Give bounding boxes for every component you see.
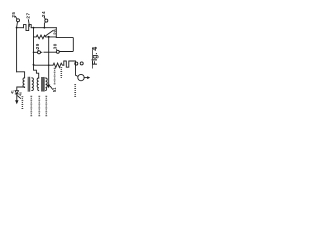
wire: T1 primary bottom to rectifier [17, 87, 25, 91]
node: junction terminal 24 / top rail [44, 27, 46, 29]
wire: rail to resistor row [33, 28, 35, 65]
svg-text:4x: 4x [18, 92, 22, 96]
load box (rectangle, open bottom-left at terminal 30) [56, 37, 73, 51]
wire: left rail corner to transformer primary [17, 72, 25, 78]
connector circle (right half, floating) [80, 62, 83, 65]
node: junction of terminal 25 and top rail [16, 27, 18, 29]
label column: lamp (tiny rotated text as dash stack) [74, 84, 76, 97]
svg-text:30: 30 [53, 43, 58, 49]
T2 core (dense) [41, 77, 43, 91]
winding label: SECONDARY (T1 right) (tiny rotated text as dash stack) [30, 96, 32, 116]
terminal 25 (top-left input) [15, 16, 19, 27]
node: dropper / mid wire junction [48, 64, 50, 66]
winding label: T2 secondary (tiny rotated text as dash stack) [45, 96, 47, 116]
leader for label 27 [28, 20, 29, 26]
terminal 30 (right connector half) [44, 50, 60, 54]
label column: secondary (tiny rotated text as dash stack) [60, 67, 62, 78]
T2 right winding [46, 78, 48, 91]
lamp output arrow [84, 77, 87, 79]
svg-text:51: 51 [52, 87, 57, 92]
svg-text:29: 29 [35, 43, 40, 49]
resistor 28 (horizontal zigzag) [34, 35, 57, 39]
transformer T1 primary winding (left bumps) [23, 78, 25, 88]
leader tick near diode [18, 96, 21, 99]
terminal 24 (top-right input) [44, 17, 48, 28]
wire: right rail from top rail down to box [55, 28, 57, 38]
wire: mid horizontal to second resistor [34, 64, 54, 66]
arrow to ground (solid) [47, 85, 50, 89]
winding label: T2 primary (tiny rotated text as dash stack) [38, 96, 40, 116]
winding label: PRIMARY (T1 left) (tiny rotated text as dash stack) [22, 96, 24, 109]
T1 secondary winding (right bumps) [32, 78, 34, 91]
connector circle (left half, on dropper to lamp) [75, 62, 78, 65]
ground arrow (solid) [15, 100, 18, 104]
wire: left rail (down from top rail) [16, 28, 18, 72]
breaker/starter meander (right) [64, 61, 78, 76]
transformer T2 left winding [37, 78, 39, 91]
label column: ballast winding (tiny rotated text as dash stack) [54, 68, 56, 85]
svg-text:41: 41 [11, 90, 15, 94]
terminal 29 (left connector half) [34, 50, 42, 54]
node: junction rail / middle rail [33, 27, 35, 29]
diode (hollow, pointing down) [15, 91, 18, 94]
fuse/breaker 27 (square meander on top rail) [24, 25, 32, 31]
staircase wire: mid junction down to T2 left coil [34, 65, 39, 78]
resistor (second, horizontal zigzag) [53, 63, 64, 67]
leader for label 28 [45, 31, 53, 37]
wire: top rail left segment [17, 27, 24, 29]
svg-text:25: 25 [11, 12, 16, 18]
node: resistor wire / dropper junction [48, 36, 50, 38]
T1 core [27, 77, 29, 91]
svg-text:27: 27 [25, 12, 30, 18]
lamp (circle) [78, 74, 84, 80]
wire: long dropper from resistor junction down to arrow [48, 37, 50, 85]
wire below diode [16, 94, 18, 100]
node: junction rail / mid horizontal [33, 64, 35, 66]
svg-text:24: 24 [41, 11, 46, 17]
wire: top rail right segment [31, 27, 56, 29]
node: junction rail/terminal 29 wire [33, 52, 35, 54]
